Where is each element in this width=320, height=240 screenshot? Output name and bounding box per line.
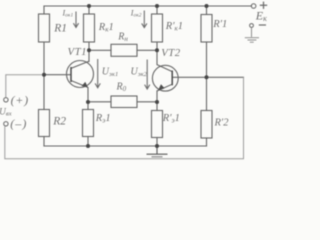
wire Rn left lead xyxy=(89,49,111,51)
resistor R2 xyxy=(39,110,50,137)
wire left branch between R1 and R2 xyxy=(43,42,45,110)
node bottom rail Re1 xyxy=(86,144,90,148)
transistor VT2 base bar xyxy=(171,71,173,86)
wire Rk1 branch top xyxy=(88,6,90,14)
svg-text:Iок2: Iок2 xyxy=(130,8,142,18)
wire VT2 collector xyxy=(156,42,158,65)
wire R0 right lead xyxy=(137,101,157,103)
transistor VT2 emitter diagonal xyxy=(158,84,172,90)
node VT1 collector xyxy=(87,48,91,52)
transistor VT2 circle xyxy=(152,65,178,91)
ground at bottom rail xyxy=(156,146,158,154)
transistor VT2 collector diagonal xyxy=(157,65,172,72)
wire VT1 collector xyxy=(88,42,90,62)
node VT1 base junction xyxy=(42,73,46,77)
svg-text:(–): (–) xyxy=(10,116,27,130)
wire base node to R'2 xyxy=(206,77,208,110)
node VT2 collector xyxy=(155,48,159,52)
wire plus input vertical xyxy=(6,75,44,98)
wire VT2 base lead xyxy=(173,76,244,78)
transistor VT1 emitter diagonal xyxy=(71,81,87,88)
node VT2 base junction xyxy=(205,75,209,79)
wire Re1 branch top xyxy=(87,102,89,110)
wire return line from minus input along bottom and right to VT2 base xyxy=(5,77,244,159)
svg-text:R′э1: R′э1 xyxy=(162,113,180,125)
svg-text:Iок1: Iок1 xyxy=(62,8,74,18)
wire R'2 bottom xyxy=(206,138,208,146)
resistor Re1 xyxy=(83,110,94,137)
wire VT1 emitter xyxy=(87,88,89,103)
terminal plus input circle xyxy=(4,98,8,102)
svg-text:Rк1: Rк1 xyxy=(98,22,114,34)
wire R0 left lead xyxy=(88,101,111,103)
node VT1 emitter xyxy=(86,100,90,104)
wire Re1 bottom xyxy=(87,137,89,147)
svg-text:R1: R1 xyxy=(53,22,67,34)
svg-text:Eк: Eк xyxy=(255,8,267,23)
svg-text:R′1: R′1 xyxy=(212,19,227,30)
svg-text:Uэк2: Uэк2 xyxy=(131,66,148,78)
svg-text:R0: R0 xyxy=(116,82,127,94)
wire VT1 base lead xyxy=(44,74,71,76)
wire top rail xyxy=(44,5,252,7)
wire R'1 branch top xyxy=(206,6,208,15)
transistor VT1 circle xyxy=(67,61,94,88)
terminal minus input circle xyxy=(4,122,8,126)
svg-text:(+): (+) xyxy=(11,93,29,107)
wire R'e1 branch top xyxy=(156,102,158,111)
svg-text:Uэк1: Uэк1 xyxy=(102,66,118,78)
svg-text:Rн: Rн xyxy=(117,32,128,44)
resistor R1 xyxy=(39,14,50,42)
arrow voltage Uek2 xyxy=(145,60,150,90)
resistor Rn xyxy=(111,44,137,56)
wire bottom rail xyxy=(44,145,207,147)
arrow current Iok2 xyxy=(142,11,147,28)
node top rail Rk1 xyxy=(87,4,91,8)
wire left branch R1 top xyxy=(43,6,45,14)
resistor R'2 xyxy=(201,111,212,139)
wire left branch R2 bottom xyxy=(43,137,45,147)
svg-text:R′2: R′2 xyxy=(214,118,230,129)
resistor R'1 xyxy=(201,15,212,43)
resistor R0 xyxy=(111,96,137,108)
svg-text:VT2: VT2 xyxy=(161,47,181,59)
label plus Ek xyxy=(260,2,267,9)
transistor VT1 emitter arrowhead xyxy=(82,82,88,88)
wire R'k1 branch top xyxy=(156,6,158,14)
resistor Rk1 xyxy=(84,14,95,42)
ground at Ek minus xyxy=(251,28,253,38)
wire Rn right lead xyxy=(137,49,157,51)
transistor VT1 collector diagonal xyxy=(71,61,89,68)
label minus Ek xyxy=(259,24,266,26)
transistor VT1 base bar xyxy=(70,67,72,82)
node top rail R'1 xyxy=(205,4,209,8)
arrow current Iok1 xyxy=(73,12,78,28)
wire VT2 emitter xyxy=(156,91,158,102)
svg-text:R2: R2 xyxy=(52,116,66,128)
wire R'e1 bottom xyxy=(156,138,158,147)
wire R'1 to base node xyxy=(206,42,208,77)
terminal Ek plus circle xyxy=(251,4,256,9)
arrow voltage Uek1 xyxy=(95,59,100,88)
node top rail R'k1 xyxy=(155,4,159,8)
transistor VT2 emitter arrowhead xyxy=(158,84,165,90)
svg-text:VT1: VT1 xyxy=(68,46,88,58)
resistor R'k1 xyxy=(152,14,163,42)
terminal Ek minus circle xyxy=(250,24,254,28)
node bottom rail ground xyxy=(155,144,159,148)
svg-text:Rэ1: Rэ1 xyxy=(95,113,111,125)
resistor R'e1 xyxy=(152,111,163,138)
node VT2 emitter xyxy=(155,100,159,104)
svg-text:R′к1: R′к1 xyxy=(165,21,183,33)
